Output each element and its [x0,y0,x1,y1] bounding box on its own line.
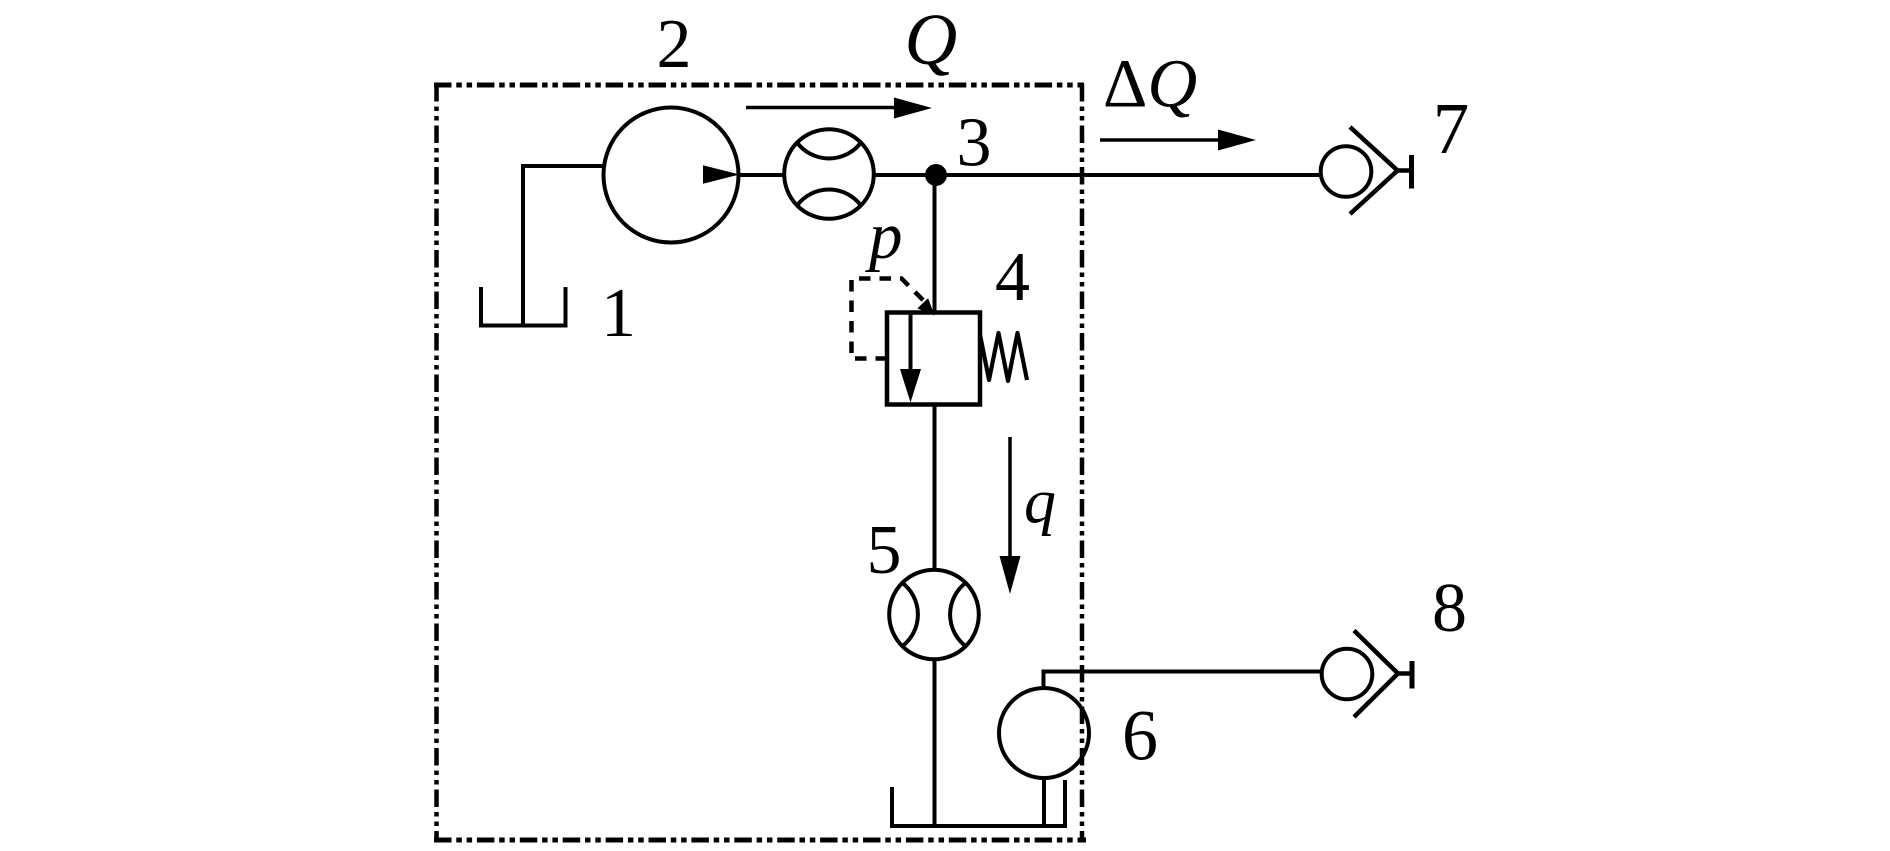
enclosure border left [434,84,439,842]
svg-text:5: 5 [867,512,902,589]
outlet nozzle 7 plate [1409,155,1414,189]
outlet nozzle 7 stem [1396,168,1411,173]
valve 4 internal flow arrow [909,313,913,372]
enclosure border bottom [434,838,1086,843]
svg-text:Q: Q [905,0,958,80]
svg-text:3: 3 [957,105,992,182]
svg-text:1: 1 [601,275,636,352]
svg-text:q: q [1024,466,1056,537]
flow meter 5 body [889,570,979,660]
svg-text:4: 4 [995,239,1030,316]
wire flow meter to node 3 and outlet 7 [876,173,1321,177]
svg-text:2: 2 [657,6,692,83]
flow meter (top) upper arc [797,143,861,159]
svg-text:7: 7 [1433,88,1470,169]
pipe motor 6 to tank [1042,777,1046,826]
svg-text:ΔQ: ΔQ [1103,46,1197,122]
flow meter (top) body [784,129,874,219]
wire flow meter 5 to tank [933,659,937,826]
wire tank 1 to pump 2 [521,164,603,168]
valve 4 pilot line p (dashed) [852,279,927,359]
flow meter 5 left arc [902,583,918,646]
flow arrow q [1008,437,1012,559]
outlet nozzle 8 plate [1410,661,1415,689]
pipe motor 6 to outlet 8 [1044,672,1323,690]
enclosure border top [434,83,1084,88]
outlet nozzle 7 body [1321,146,1372,197]
wire valve 4 to flow meter 5 [933,405,937,570]
motor 6 [999,688,1089,778]
pilot arrowhead [917,298,934,315]
tank 1 [481,166,566,326]
flow meter (top) lower arc [797,190,861,206]
svg-text:6: 6 [1122,696,1158,776]
wire pump 2 to flow meter [738,173,783,177]
outlet nozzle 8 body [1322,649,1373,700]
outlet nozzle 8 stem [1397,671,1412,676]
tank (bottom) [890,780,1067,826]
svg-text:8: 8 [1432,570,1467,647]
enclosure border right [1080,84,1085,842]
pump 2 [604,108,739,243]
pump 2 output arrow [703,165,740,184]
valve 4 spring [980,333,1027,381]
flow meter 5 right arc [950,583,966,646]
svg-text:p: p [865,199,903,273]
node 3 [925,164,947,186]
outlet nozzle 8 baffle chevron [1354,631,1398,718]
wire node 3 to valve 4 [933,175,937,313]
flow arrow Q [746,106,897,110]
flow arrow dQ [1100,138,1220,142]
relief valve 4 body [887,313,980,405]
outlet nozzle 7 baffle chevron [1350,127,1398,214]
